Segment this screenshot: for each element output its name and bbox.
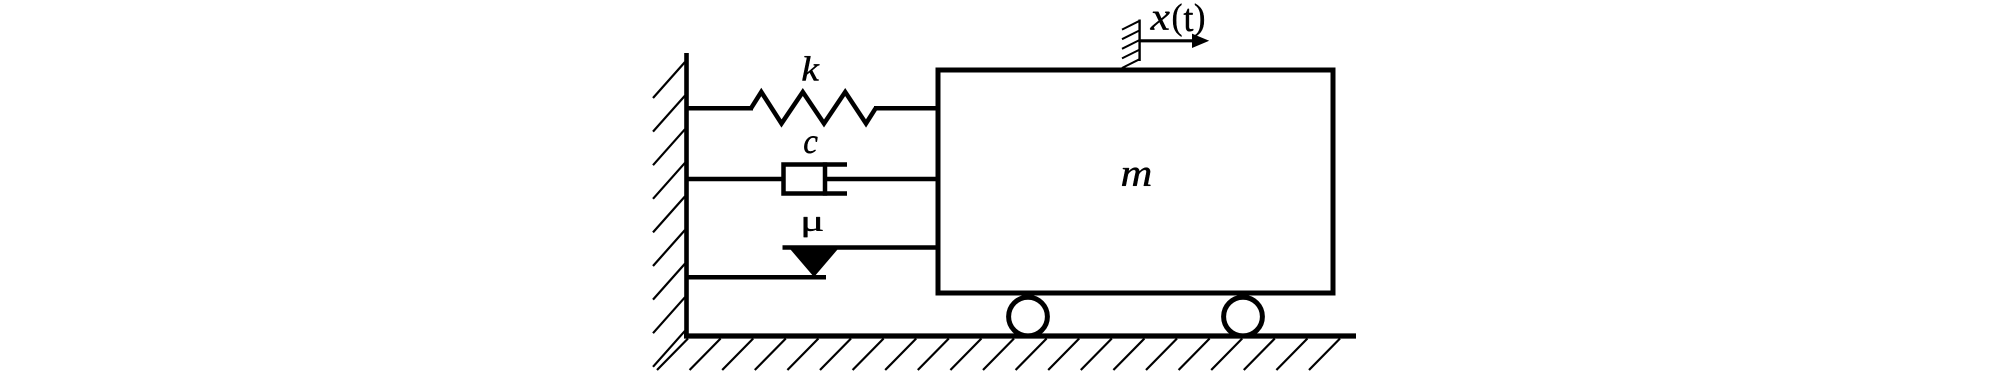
mass m body [938, 70, 1333, 293]
label k [802, 56, 819, 80]
damper piston [823, 162, 828, 195]
ground hatching [657, 339, 1340, 371]
ground line [684, 333, 1356, 338]
friction lower line [687, 275, 827, 280]
x(t) reference post [1138, 20, 1140, 62]
label c [804, 136, 817, 153]
wire damper left rod [687, 177, 784, 182]
label m [1122, 168, 1150, 186]
spring k [751, 92, 876, 124]
arrow x(t) head [1192, 34, 1209, 48]
wheel right [1224, 297, 1263, 336]
wire damper right rod [825, 177, 940, 182]
label x(t) [1150, 4, 1204, 37]
wheel left [1009, 297, 1048, 336]
wall hatching [653, 62, 685, 367]
damper C cylinder [784, 165, 848, 194]
wire spring right lead [874, 106, 940, 111]
x(t) reference hatching [1122, 21, 1140, 68]
friction pad triangle [791, 250, 838, 278]
arrow x(t) shaft [1140, 39, 1194, 42]
wall [684, 53, 689, 338]
label mu [804, 217, 823, 237]
friction upper line [783, 245, 941, 250]
wire spring left lead [687, 106, 754, 111]
